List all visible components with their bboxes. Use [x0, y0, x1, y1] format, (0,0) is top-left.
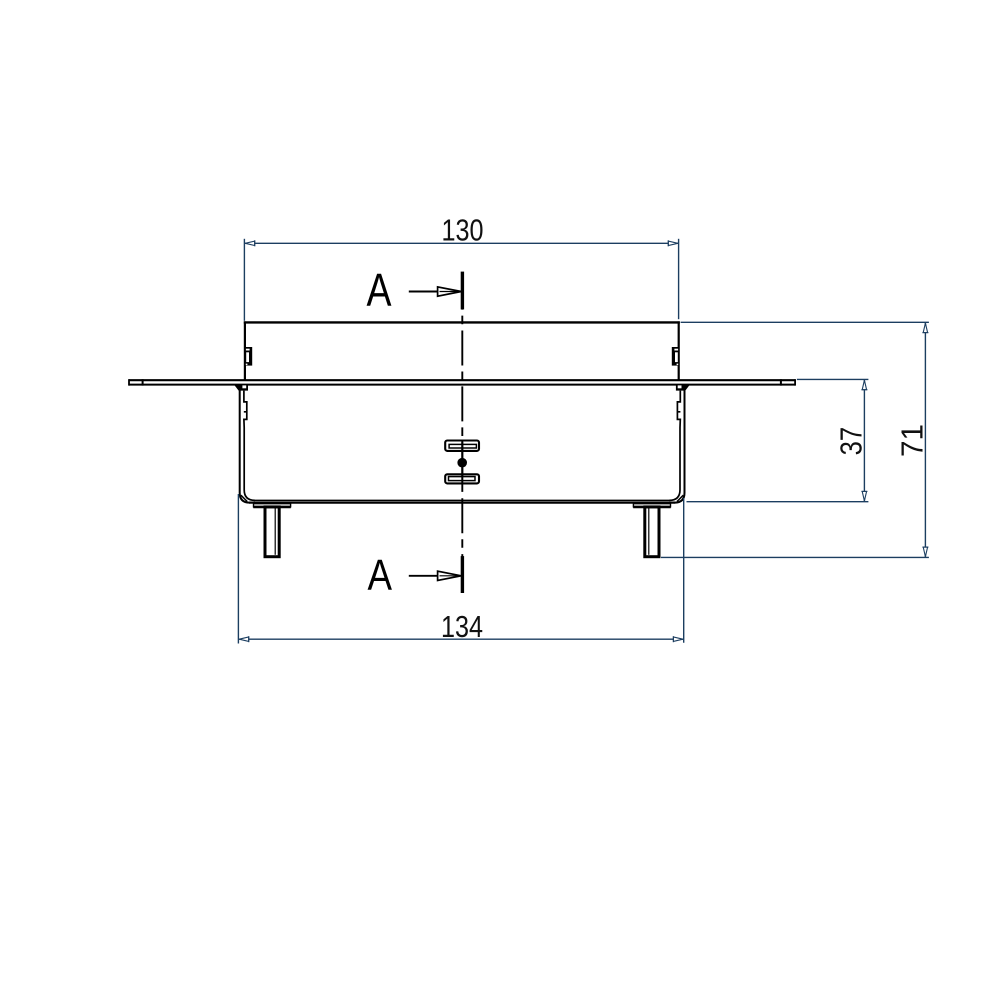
- latch keeper right: [676, 385, 690, 390]
- dimension 130 arrow left: [245, 241, 255, 245]
- dimension 71 extension line top: [681, 321, 929, 323]
- dimension 71 line: [924, 322, 926, 557]
- leg right: [645, 507, 659, 557]
- dimension 37 arrow top: [862, 380, 866, 390]
- lid right edge: [678, 321, 680, 380]
- dimension 134 line: [238, 638, 683, 640]
- svg-text:71: 71: [894, 424, 929, 457]
- dimension 130 extension line left: [243, 239, 245, 321]
- dimension 37 extension line bottom: [687, 501, 869, 503]
- box left corner bend line: [241, 495, 247, 501]
- box right wall bump lines: [677, 411, 680, 413]
- box left wall inner: [244, 391, 255, 501]
- dimension 71 extension line bottom: [661, 556, 929, 558]
- svg-text:A: A: [367, 264, 392, 316]
- box right wall inner: [669, 391, 680, 501]
- dimension 37 text: [833, 427, 868, 456]
- dimension 134 extension line right: [683, 498, 685, 643]
- section line A top tick: [461, 272, 464, 310]
- section arrow A top shaft: [409, 291, 438, 293]
- lid clip right: [672, 347, 678, 366]
- dimension 130 line: [244, 242, 678, 244]
- dimension 134 arrow right: [673, 637, 683, 641]
- leg left: [265, 507, 279, 557]
- svg-text:A: A: [367, 551, 392, 600]
- dimension 37 line: [863, 379, 865, 501]
- svg-text:37: 37: [833, 427, 868, 456]
- section arrow A bottom head: [438, 571, 462, 580]
- lid left edge: [244, 321, 246, 380]
- box left wall bump lines: [244, 411, 247, 413]
- section arrow A bottom shaft: [409, 575, 438, 577]
- box right wall outer: [675, 386, 685, 503]
- dimension 37 extension line top: [797, 378, 869, 380]
- flange left cap: [128, 379, 130, 385]
- box right corner bend line: [677, 495, 683, 501]
- section line A bottom tick: [461, 556, 464, 593]
- dimension 134 arrow left: [239, 637, 249, 641]
- dimension 130 extension line right: [678, 239, 680, 319]
- svg-text:130: 130: [442, 212, 484, 247]
- dimension 37 arrow bottom: [862, 491, 866, 501]
- flange right divider: [780, 379, 782, 385]
- center dot: [457, 458, 467, 468]
- dimension 134 extension line left: [237, 494, 239, 644]
- flange top line: [129, 379, 796, 381]
- lid clip left: [246, 347, 252, 366]
- box bottom outer line: [249, 502, 675, 504]
- lid top line: [244, 321, 680, 323]
- dimension 130 arrow right: [668, 241, 678, 245]
- center slot bottom: [445, 474, 479, 483]
- latch keeper left: [235, 385, 249, 390]
- centerline: [461, 275, 463, 593]
- leg plate left: [253, 503, 290, 508]
- box left wall outer: [240, 386, 250, 503]
- flange right cap: [794, 379, 796, 385]
- svg-text:134: 134: [441, 609, 483, 644]
- box bottom inner line: [254, 499, 670, 501]
- dimension 71 arrow top: [923, 323, 927, 333]
- center connector line: [461, 440, 463, 484]
- flange bottom line: [129, 384, 796, 386]
- center slot top: [445, 441, 479, 451]
- flange left divider: [142, 379, 144, 385]
- section arrow A top head: [438, 287, 462, 296]
- dimension 71 text: [894, 424, 929, 457]
- dimension 71 arrow bottom: [923, 547, 927, 557]
- leg plate right: [633, 503, 671, 508]
